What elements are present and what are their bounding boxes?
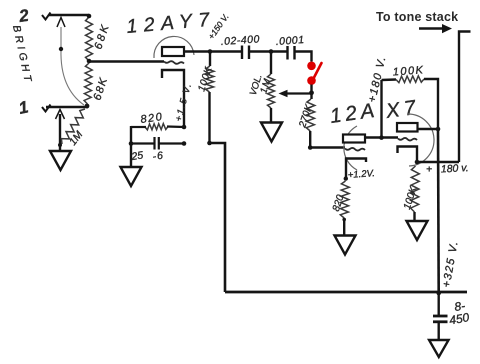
svg-text:100K: 100K bbox=[196, 65, 215, 93]
svg-text:-6: -6 bbox=[152, 150, 165, 163]
svg-text:.02-400: .02-400 bbox=[220, 33, 260, 48]
svg-text:BRIGHT: BRIGHT bbox=[10, 24, 34, 86]
svg-text:+: + bbox=[426, 164, 432, 176]
svg-text:450: 450 bbox=[448, 310, 470, 327]
svg-text:.0001: .0001 bbox=[275, 34, 305, 48]
svg-text:+1.2V.: +1.2V. bbox=[347, 168, 375, 181]
svg-text:68K: 68K bbox=[92, 21, 112, 50]
svg-text:68K: 68K bbox=[91, 75, 110, 102]
svg-text:100K: 100K bbox=[392, 64, 424, 78]
svg-text:12AY7: 12AY7 bbox=[126, 8, 217, 38]
svg-text:X7: X7 bbox=[384, 95, 422, 123]
svg-text:+1.5 V.: +1.5 V. bbox=[173, 81, 194, 123]
svg-text:2: 2 bbox=[17, 6, 31, 26]
svg-text:820: 820 bbox=[140, 111, 164, 126]
svg-text:25: 25 bbox=[130, 149, 144, 163]
svg-text:180 v.: 180 v. bbox=[441, 162, 469, 175]
svg-text:1: 1 bbox=[17, 97, 30, 118]
svg-text:+325 V.: +325 V. bbox=[441, 239, 461, 288]
svg-text:To tone stack: To tone stack bbox=[376, 10, 458, 24]
